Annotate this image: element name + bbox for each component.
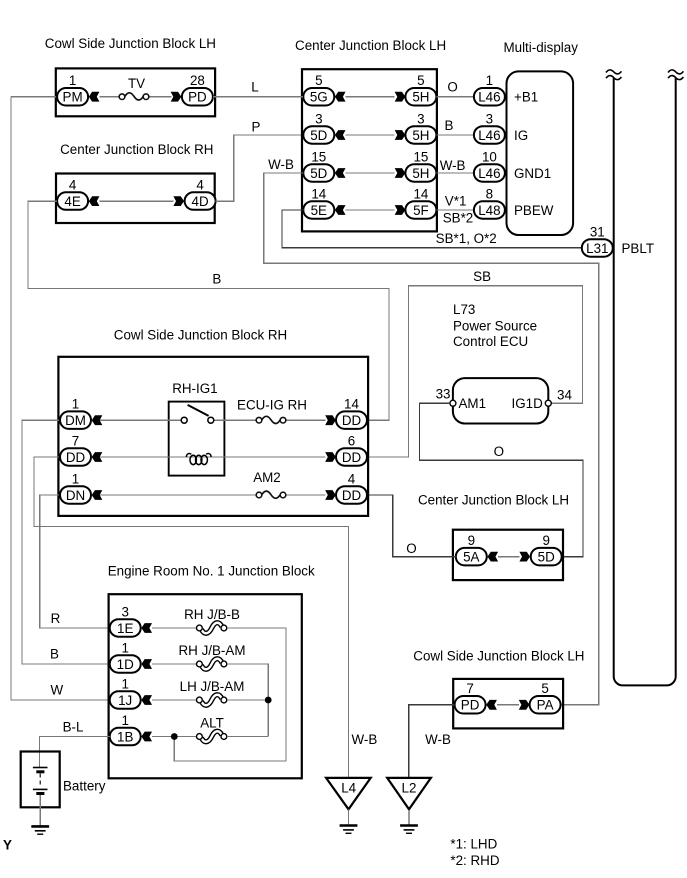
wire W-B long run 5D15 to PA [264, 173, 599, 705]
wire W-B (5H to L46 GND1) [437, 172, 475, 174]
arrow into DN [92, 490, 103, 500]
svg-text:PA: PA [537, 698, 554, 713]
arrow into 5D(9) [519, 552, 530, 562]
ground triangle L4 [326, 778, 371, 809]
arrow into 1J [141, 695, 152, 705]
junction block box: Cowl Side Junction Block LH (bottom) [453, 679, 563, 729]
svg-text:3: 3 [315, 111, 322, 126]
connector pin PD (7) [455, 696, 486, 714]
ground bars L2 ground [400, 826, 418, 834]
svg-text:W-B: W-B [268, 157, 294, 172]
wire row DN to DD4 [99, 494, 325, 496]
fusible link ALT [197, 731, 227, 742]
arrow into 5D [335, 130, 346, 140]
wire W from PM to left margin [11, 96, 57, 98]
connector pin 5H (3) [405, 126, 436, 144]
svg-text:RH-IG1: RH-IG1 [172, 381, 217, 396]
connector pin 5H (15) [405, 164, 436, 182]
svg-text:5F: 5F [413, 203, 429, 218]
svg-text:AM1: AM1 [459, 396, 487, 411]
svg-text:W-B: W-B [425, 732, 451, 747]
wire W-B (PD to L2) [409, 705, 455, 778]
wire L4 stem [348, 809, 350, 825]
svg-text:10: 10 [482, 149, 497, 164]
svg-text:8: 8 [486, 186, 493, 201]
svg-text:1: 1 [72, 397, 79, 412]
connector pin L46 pin 10 (GND1) [474, 164, 505, 182]
svg-text:14: 14 [344, 397, 359, 412]
wire RH J/B-AM / LH J/B-AM / ALT tie [227, 664, 268, 737]
svg-text:14: 14 [413, 186, 428, 201]
svg-text:5D: 5D [538, 550, 555, 565]
svg-text:1: 1 [121, 713, 128, 728]
svg-text:1: 1 [486, 73, 493, 88]
component body: Multi-display (main) [507, 71, 574, 235]
wire row 5G-5H inside Center JB LH [346, 96, 395, 98]
arrow into 5F [395, 205, 406, 215]
break mark (continuation squiggle) right line [668, 70, 683, 80]
connector pin L46 pin 1 (+B1) [474, 88, 505, 106]
svg-text:L48: L48 [478, 203, 500, 218]
wire row 5D-5H inside Center JB LH [346, 172, 395, 174]
svg-text:15: 15 [311, 149, 326, 164]
connector pin 5D (3) [303, 126, 334, 144]
connector pin 4D [185, 192, 216, 210]
svg-text:SB*2: SB*2 [443, 211, 474, 226]
svg-text:5: 5 [315, 73, 322, 88]
svg-text:DD: DD [342, 413, 362, 428]
battery cell plates [33, 768, 48, 794]
connector pin 5G (5) [303, 88, 334, 106]
junction block box: Center Junction Block LH (bottom) [453, 530, 563, 580]
connector pin 4E [57, 192, 88, 210]
svg-text:L46: L46 [478, 166, 500, 181]
svg-text:1: 1 [121, 676, 128, 691]
wire R (DN to 1E) [40, 495, 110, 628]
svg-text:14: 14 [311, 186, 326, 201]
junction block box: Engine Room No. 1 Junction Block [109, 594, 302, 778]
connector pin 5H (5) [405, 88, 436, 106]
svg-text:5E: 5E [311, 203, 327, 218]
svg-text:5: 5 [417, 73, 424, 88]
svg-text:Y: Y [3, 838, 12, 853]
fusible link LH J/B-AM [197, 695, 227, 706]
svg-text:Control ECU: Control ECU [453, 334, 528, 349]
svg-text:5G: 5G [310, 90, 328, 105]
svg-text:3: 3 [417, 111, 424, 126]
component body: Power Source Control ECU [453, 378, 548, 423]
wire RH J/B-B output loop to 1B node [174, 628, 286, 761]
arrow into 4D [173, 196, 184, 206]
svg-text:4: 4 [69, 177, 77, 192]
svg-text:1D: 1D [117, 657, 134, 672]
svg-text:V*1: V*1 [445, 194, 467, 209]
wire L2 stem [408, 809, 410, 825]
wire 4E to 4D [99, 200, 173, 202]
wire row 1J to LH J/B-AM fusible link [152, 699, 196, 701]
wire row DM to DD14 [99, 419, 325, 421]
connector pin DD (6) [336, 448, 367, 466]
connector pin L46 pin 3 (IG) [474, 126, 505, 144]
svg-text:B: B [445, 118, 454, 133]
wire O (DD4 to 5A) [367, 495, 456, 557]
svg-text:Cowl Side Junction Block LH: Cowl Side Junction Block LH [45, 36, 216, 51]
svg-text:PD: PD [461, 698, 480, 713]
svg-text:34: 34 [557, 387, 572, 402]
relay switch blade [188, 405, 209, 416]
svg-text:6: 6 [348, 433, 355, 448]
svg-text:Center Junction Block LH: Center Junction Block LH [418, 492, 569, 507]
arrow into PD [171, 92, 182, 102]
svg-text:LH J/B-AM: LH J/B-AM [180, 679, 245, 694]
svg-text:SB: SB [473, 269, 491, 284]
wire PD to PA [497, 704, 519, 706]
svg-text:B-L: B-L [63, 719, 84, 734]
svg-text:Center Junction Block LH: Center Junction Block LH [295, 38, 446, 53]
wire row 5D-5H inside Center JB LH [346, 134, 395, 136]
connector pin DD (14) [336, 411, 367, 429]
arrow into DD(7) [92, 452, 103, 462]
connector pin PM [57, 88, 88, 106]
svg-text:SB*1, O*2: SB*1, O*2 [436, 231, 497, 246]
svg-text:L31: L31 [586, 241, 608, 256]
fusible link RH J/B-B [197, 623, 227, 634]
svg-text:Battery: Battery [63, 779, 106, 794]
wire battery feed inside box [39, 752, 41, 768]
svg-text:4: 4 [348, 471, 356, 486]
connector pin L48 pin 8 (PBEW) [474, 201, 505, 219]
svg-text:4E: 4E [64, 194, 80, 209]
arrow into PA(5) [519, 700, 530, 710]
svg-text:4: 4 [196, 177, 204, 192]
wire row DD7 to DD6 [99, 456, 325, 458]
wire V*1/SB*2 (5F to L48) [437, 209, 476, 211]
svg-text:DD: DD [342, 488, 362, 503]
connector pin DD (4) [336, 486, 367, 504]
svg-text:Engine Room No. 1 Junction Blo: Engine Room No. 1 Junction Block [108, 563, 315, 578]
arrow into 5H [395, 168, 406, 178]
svg-text:L: L [251, 80, 258, 95]
connector pin 5A (9) [456, 548, 487, 566]
svg-text:Power Source: Power Source [453, 319, 537, 334]
connector pin 5F (14) [405, 201, 436, 219]
svg-text:5D: 5D [310, 166, 327, 181]
arrow into 5H [395, 92, 406, 102]
connector pin L31 pin 31 (PBLT) [582, 239, 613, 257]
wire O (5H to L46 +B1) [437, 96, 475, 98]
svg-text:B: B [212, 271, 221, 286]
svg-text:L73: L73 [453, 302, 475, 317]
junction block box: Center Junction Block LH (top) [302, 69, 437, 231]
fuse ECU-IG RH [256, 416, 286, 423]
arrow into 5H [395, 130, 406, 140]
connector pin 5D (15) [303, 164, 334, 182]
connector pin DD (7) [60, 448, 91, 466]
svg-text:DD: DD [66, 450, 86, 465]
svg-text:1: 1 [69, 73, 76, 88]
wire B-L (battery to 1B) [40, 737, 111, 752]
wire W (PM down to 1J) [11, 97, 110, 700]
ECU pin 34 (IG1D) terminal circle [545, 400, 551, 406]
svg-text:7: 7 [72, 433, 79, 448]
svg-text:Center Junction Block RH: Center Junction Block RH [60, 142, 213, 157]
svg-text:1J: 1J [118, 693, 132, 708]
connector pin DN (1) [60, 486, 91, 504]
connector pin 1E (3) [110, 619, 141, 637]
wire O (AM1 to 5D9) [420, 403, 584, 556]
connector pin 5E (14) [303, 201, 334, 219]
junction block box: Center Junction Block RH [56, 174, 215, 224]
svg-text:PBEW: PBEW [514, 203, 554, 218]
svg-text:5D: 5D [310, 128, 327, 143]
arrow into 4E [89, 196, 100, 206]
svg-text:5A: 5A [463, 550, 479, 565]
wire 5A to 5D [498, 556, 519, 558]
junction dot (1B / ALT node) [171, 733, 178, 740]
svg-text:5H: 5H [412, 90, 429, 105]
arrow into PM [89, 92, 100, 102]
svg-text:L2: L2 [402, 780, 417, 795]
svg-text:31: 31 [590, 224, 605, 239]
svg-text:*2: RHD: *2: RHD [450, 853, 499, 868]
wire P (4D to 5D) [216, 135, 304, 201]
arrow into PD(7) [486, 700, 497, 710]
svg-text:Cowl Side Junction Block LH: Cowl Side Junction Block LH [413, 649, 584, 664]
connector pin 1J (1) [110, 691, 141, 709]
svg-text:L4: L4 [341, 780, 356, 795]
wire battery to ground [39, 795, 41, 826]
wire B (4E to DD14) [28, 201, 389, 420]
wire SB*1,O*2 (5E to L31) [282, 210, 582, 248]
ECU pin 33 (AM1) terminal circle [450, 400, 456, 406]
svg-text:TV: TV [128, 76, 145, 91]
wire row 1D to RH J/B-AM fusible link [152, 663, 196, 665]
arrow into 1E [141, 623, 152, 633]
ground bars battery ground [31, 826, 49, 834]
svg-text:5H: 5H [412, 128, 429, 143]
fuse TV [119, 93, 149, 100]
svg-text:O: O [494, 444, 504, 459]
connector pin 5D (9) [531, 548, 562, 566]
svg-text:PM: PM [63, 90, 83, 105]
svg-text:33: 33 [436, 387, 451, 402]
connector pin PD (28) [182, 88, 213, 106]
svg-text:DM: DM [65, 413, 86, 428]
svg-text:DD: DD [342, 450, 362, 465]
wire B (5H to L46 IG) [437, 134, 475, 136]
svg-text:RH J/B-AM: RH J/B-AM [179, 643, 246, 658]
svg-text:W: W [50, 682, 63, 697]
svg-text:1: 1 [72, 471, 79, 486]
wire L (PD to 5G) [213, 96, 303, 98]
break mark (continuation squiggle) left line [606, 70, 621, 80]
arrow into 5E [335, 205, 346, 215]
svg-text:1: 1 [121, 640, 128, 655]
svg-text:DN: DN [66, 488, 85, 503]
arrow into 1D [141, 659, 152, 669]
junction dot (LH J/B-AM node) [265, 697, 272, 704]
svg-text:L46: L46 [478, 90, 500, 105]
svg-text:5H: 5H [412, 166, 429, 181]
connector pin 1B (1) [110, 728, 141, 746]
wire B (DM to 1D) [22, 420, 110, 664]
fuse AM2 [256, 491, 286, 498]
svg-text:GND1: GND1 [514, 166, 551, 181]
svg-text:4D: 4D [192, 194, 209, 209]
arrow into DD(6) [325, 452, 336, 462]
svg-text:RH J/B-B: RH J/B-B [184, 607, 240, 622]
junction block box: Cowl Side Junction Block RH [58, 357, 368, 516]
svg-text:9: 9 [468, 533, 475, 548]
ground triangle L2 [387, 778, 431, 809]
svg-text:+B1: +B1 [514, 90, 538, 105]
svg-text:O: O [447, 80, 457, 95]
svg-text:5: 5 [541, 681, 548, 696]
svg-text:1B: 1B [117, 729, 133, 744]
ground bars L4 ground [340, 826, 358, 834]
arrow into 5A [488, 552, 499, 562]
svg-text:9: 9 [542, 533, 549, 548]
relay RH-IG1 box [169, 402, 225, 476]
relay switch contact circles [181, 417, 187, 423]
wire row 1B to ALT fusible link [152, 736, 196, 738]
svg-text:IG: IG [514, 128, 528, 143]
arrow into 1B [141, 732, 152, 742]
arrow into DD(4) [325, 490, 336, 500]
svg-text:Multi-display: Multi-display [503, 40, 578, 55]
connector pin 1D (1) [110, 655, 141, 673]
svg-text:7: 7 [466, 681, 473, 696]
svg-text:Cowl Side Junction Block RH: Cowl Side Junction Block RH [114, 328, 287, 343]
connector pin DM (1) [60, 411, 91, 429]
svg-text:L46: L46 [478, 128, 500, 143]
svg-text:28: 28 [190, 73, 205, 88]
relay coil [186, 453, 211, 464]
svg-text:3: 3 [486, 111, 493, 126]
wire W-B (DD7 to L4) [34, 457, 349, 778]
svg-text:W-B: W-B [440, 158, 466, 173]
svg-text:ALT: ALT [200, 716, 224, 731]
wire SB (DD6 to IG1D) [367, 286, 582, 457]
junction block box: Cowl Side Junction Block LH (top) [56, 68, 215, 116]
wire PM to TV fuse to PD [99, 96, 171, 98]
arrow into 5D [335, 168, 346, 178]
arrow into DD(14) [325, 415, 336, 425]
svg-text:B: B [50, 646, 59, 661]
svg-text:W-B: W-B [352, 732, 378, 747]
arrow into DM [92, 415, 103, 425]
svg-text:*1: LHD: *1: LHD [450, 836, 497, 851]
arrow into 5G [335, 92, 346, 102]
svg-text:AM2: AM2 [253, 470, 281, 485]
svg-text:ECU-IG RH: ECU-IG RH [237, 397, 307, 412]
svg-text:1E: 1E [117, 621, 133, 636]
component body: Multi-display (continuation, right tall outline) [614, 78, 676, 685]
connector pin PA (5) [530, 696, 561, 714]
wire row 1E to RH J/B-B fusible link [152, 627, 196, 629]
fusible link RH J/B-AM [197, 659, 227, 670]
svg-text:15: 15 [413, 149, 428, 164]
svg-text:PBLT: PBLT [622, 241, 655, 256]
wire row 5E-5F inside Center JB LH [346, 209, 395, 211]
svg-text:O: O [406, 541, 416, 556]
battery box [21, 752, 60, 808]
svg-text:PD: PD [188, 90, 207, 105]
svg-text:R: R [51, 611, 61, 626]
svg-text:P: P [252, 119, 261, 134]
svg-text:IG1D: IG1D [512, 396, 544, 411]
svg-text:3: 3 [121, 604, 128, 619]
